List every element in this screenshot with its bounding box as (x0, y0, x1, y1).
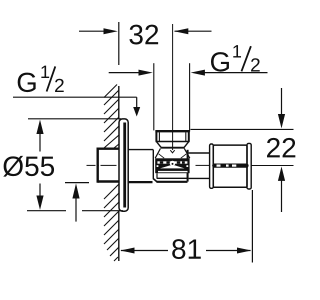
neck line (161, 147, 184, 149)
dim 32 line left (79, 30, 104, 32)
dim 32 text (129, 25, 158, 45)
G1/2 top-right superscript 1 (233, 45, 241, 57)
funnel inner cone left (159, 154, 165, 158)
dim O55 top ext line (28, 118, 121, 120)
dim 81 right ext line (251, 190, 253, 263)
dim 22 text (267, 138, 295, 158)
dim G1/2 right arrow (191, 70, 205, 76)
dim 22 top arrow (278, 114, 285, 128)
dim 32 line right (175, 30, 212, 32)
shank top edge (128, 149, 153, 151)
union nut left edge (155, 130, 157, 141)
union nut inner right line (185, 132, 187, 141)
wall hatching lower (104, 184, 119, 261)
escutcheon flange (119, 119, 128, 211)
knob left rim (210, 144, 214, 188)
knob right cap (247, 143, 251, 189)
G1/2 left leader down arrow (133, 107, 140, 117)
dim 22 bottom ext line (252, 165, 294, 167)
outlet vertical centerline (172, 24, 174, 150)
dim 32 right arrow (174, 28, 188, 34)
G1/2 left superscript 1 (41, 66, 49, 78)
G1/2 left label G (18, 73, 36, 92)
dim 22 bottom arrow (278, 167, 285, 181)
funnel left outer (155, 148, 160, 158)
body bottom edge (157, 181, 188, 183)
wall hatching upper (104, 85, 119, 149)
dim O55 bottom arrow (36, 196, 43, 210)
dim 22 bottom shaft (281, 180, 283, 212)
G1/2 inlet ext line (65, 182, 89, 184)
G1/2 top-right subscript 2 (251, 58, 260, 71)
funnel right outer (184, 148, 190, 158)
right shank bottom (189, 177, 210, 179)
G1/2 inlet up arrow shaft (75, 198, 77, 222)
G1/2 inlet up arrow (72, 183, 79, 198)
dim O55 bottom ext line (27, 210, 66, 212)
union nut top edge (155, 130, 189, 132)
dim O55 bottom shaft (39, 184, 41, 197)
body right edge (187, 150, 189, 182)
nut left taper (157, 142, 162, 148)
cartridge block (155, 158, 189, 173)
wall face line upper (118, 86, 120, 119)
escutcheon front lip (123, 123, 126, 208)
funnel V notch (170, 150, 174, 153)
dim O55 text (3, 156, 54, 177)
dim G1/2 top line (109, 72, 140, 74)
right shank top (189, 152, 210, 154)
dim G1/2 left arrow (139, 70, 153, 76)
dim 81 line right (206, 250, 251, 252)
nut right taper (184, 142, 189, 148)
dim 81 right arrow (237, 248, 251, 254)
dim 32 left arrow (104, 28, 118, 34)
dim 32 left ext line (118, 22, 120, 65)
dim O55 top shaft (39, 133, 41, 152)
G1/2 top-right slash (242, 46, 251, 71)
body left edge (152, 150, 154, 179)
union nut right edge (188, 130, 190, 141)
funnel inner cone right (181, 154, 187, 158)
knob body (213, 145, 247, 187)
dim 22 top arrow shaft (281, 88, 283, 115)
union nut inner left line (158, 132, 160, 141)
axis centerline dash-dot (87, 164, 210, 166)
dim 22 top ext line (191, 128, 294, 130)
dim 81 line left (121, 250, 168, 252)
knob slot (212, 164, 248, 168)
dim 81 left arrow (120, 248, 134, 254)
cavity below cartridge (156, 173, 158, 178)
inlet thread block in wall (98, 148, 119, 183)
body bottom-left chamfer (153, 178, 157, 182)
G1/2 left leader down segment (136, 97, 138, 108)
wall face line lower (118, 211, 120, 261)
G1/2 left subscript 2 (55, 79, 64, 92)
shank bottom edge (128, 181, 152, 183)
union nut bottom edge (156, 141, 190, 143)
dim 81 text (172, 239, 201, 259)
dim O55 top arrow (36, 120, 43, 134)
dim G1/2 right ext line (189, 63, 191, 131)
G1/2 top-right label G (211, 52, 229, 71)
G1/2 left leader underline (13, 96, 137, 98)
dim G1/2 left ext line (153, 63, 155, 130)
G1/2 left slash (47, 66, 56, 91)
